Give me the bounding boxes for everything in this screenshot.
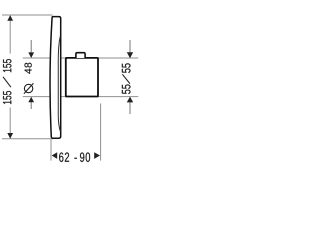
plate inner rim line	[58, 37, 60, 132]
handle knob (side view)	[66, 58, 98, 97]
extension line handle bottom right (y=96.6)	[98, 96, 139, 98]
label 55 (upper half of 55/55)	[122, 63, 131, 72]
arrowhead right (62-90)	[94, 152, 100, 159]
label hyphen	[75, 158, 77, 159]
escutcheon plate outline (side view)	[50, 17, 61, 139]
arrowhead down (Ø48 top)	[28, 52, 34, 58]
arrowhead up (155/155 top)	[7, 15, 13, 21]
label slash of 155/155	[3, 77, 11, 87]
arrowhead down (155/155 bottom)	[7, 133, 13, 139]
dimension line 155/155 (vertical, x=10.2)	[9, 16, 11, 54]
extension line 62-90 left (x=51)	[50, 139, 52, 160]
arrowhead down (55/55 top)	[127, 52, 133, 58]
extension line handle bottom left (y=96.6)	[23, 96, 50, 98]
diameter symbol slash	[24, 83, 34, 93]
safety stop button on knob	[76, 53, 85, 58]
extension line handle top right (y=58)	[98, 57, 139, 59]
label 155 (lower half of 155/155)	[3, 91, 11, 104]
label 48 of Ø 48	[24, 63, 31, 74]
label 55 (lower half of 55/55)	[122, 84, 131, 93]
label 62	[59, 152, 69, 161]
arrowhead up (55/55 bottom)	[127, 97, 133, 103]
extension line handle top left (y=58)	[23, 57, 50, 59]
extension line top (plate top, y=15)	[2, 14, 53, 16]
label 90	[80, 152, 90, 161]
extension line 62-90 right (x=100.6)	[100, 104, 102, 161]
dimension line Ø48 tails (x=31.2)	[30, 40, 32, 53]
extension line bottom (plate bottom, y=138.8)	[2, 138, 54, 140]
arrowhead left (62-90)	[52, 152, 58, 159]
arrowhead up (Ø48 bottom)	[28, 97, 34, 103]
diameter symbol circle	[24, 84, 32, 92]
dimension line 55/55 tails (x=130)	[129, 40, 131, 53]
label 155 (upper half of 155/155)	[3, 59, 11, 72]
label slash of 55/55	[122, 74, 129, 83]
